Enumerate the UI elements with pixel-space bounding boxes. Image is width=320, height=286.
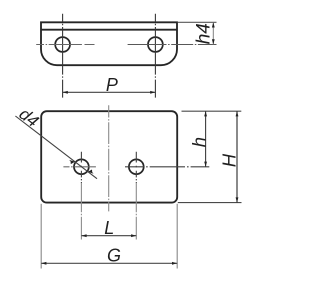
h4 top extension line (178, 21, 217, 23)
centerline vertical right hole lower view dark part (135, 152, 137, 184)
centerline vertical right hole L extension gray part (135, 183, 137, 239)
dimension h arrow down (204, 162, 207, 167)
svg-text:d4: d4 (16, 104, 43, 131)
centerline vertical left hole L extension gray part (80, 183, 82, 239)
dimension P arrow left (63, 91, 68, 94)
lower view outline rounded rect (41, 111, 177, 202)
dimension h4 arrow up (212, 22, 215, 27)
svg-text:P: P (106, 75, 118, 95)
lower view right hole (129, 159, 144, 174)
top view inner edge line (41, 29, 177, 31)
centerline horizontal right hole lower view / h extension (125, 166, 209, 168)
d4 leader arrow lower (88, 169, 94, 173)
top view left hole (55, 37, 70, 52)
dimension h arrow up (204, 111, 207, 116)
dimension G arrow right (172, 262, 177, 265)
dimension H arrow down (236, 197, 239, 202)
d4 leader line (15, 116, 97, 179)
svg-text:h: h (188, 137, 209, 147)
bottom extension line of lower view for H (178, 202, 242, 204)
centerline vertical right hole top view / P extension (154, 14, 156, 98)
dimension h4 line (212, 22, 214, 44)
svg-text:H: H (218, 153, 239, 167)
centerline horizontal left hole top view (36, 44, 94, 46)
dimension h line (205, 111, 207, 167)
dimension L arrow left (81, 234, 86, 237)
middle vertical centerline lower view (108, 105, 110, 211)
dimension L line (81, 235, 136, 237)
dimension H arrow up (236, 111, 239, 116)
top extension line of lower view for h and H (182, 110, 242, 112)
G extension line left (40, 204, 42, 269)
dimension P line (63, 91, 156, 93)
centerline horizontal left hole lower view (63, 166, 96, 168)
dimension H line (236, 111, 238, 202)
G extension line right (176, 204, 178, 269)
dimension P arrow right (150, 91, 155, 94)
top view right hole (148, 37, 163, 52)
dimension G arrow left (41, 262, 46, 265)
svg-text:G: G (107, 245, 121, 265)
centerline vertical left hole top view / P extension (62, 14, 64, 98)
dimension L arrow right (131, 234, 136, 237)
centerline vertical left hole lower view dark part (80, 152, 82, 184)
d4 leader arrow upper (69, 160, 75, 164)
top view outline (41, 22, 177, 65)
dimension G line (41, 262, 177, 264)
lower view left hole (74, 159, 89, 174)
svg-text:h4: h4 (193, 23, 214, 44)
dimension h4 arrow down (212, 39, 215, 44)
centerline horizontal right hole top view / h4 extension (128, 44, 217, 46)
svg-text:L: L (104, 218, 114, 238)
